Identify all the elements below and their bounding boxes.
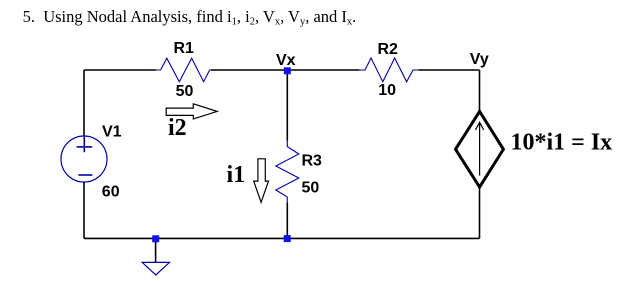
svg-text:Vx: Vx xyxy=(276,52,296,69)
svg-text:50: 50 xyxy=(176,83,194,100)
svg-text:50: 50 xyxy=(302,179,320,196)
svg-text:i2: i2 xyxy=(168,115,187,141)
svg-text:R2: R2 xyxy=(377,41,398,58)
svg-text:60: 60 xyxy=(102,184,120,201)
svg-text:Vy: Vy xyxy=(470,51,489,68)
svg-text:V1: V1 xyxy=(102,123,122,140)
svg-text:10*i1 = Ix: 10*i1 = Ix xyxy=(511,129,613,155)
svg-text:i1: i1 xyxy=(226,162,245,188)
svg-text:R3: R3 xyxy=(302,153,323,170)
svg-text:10: 10 xyxy=(378,82,396,99)
svg-text:R1: R1 xyxy=(173,40,194,57)
